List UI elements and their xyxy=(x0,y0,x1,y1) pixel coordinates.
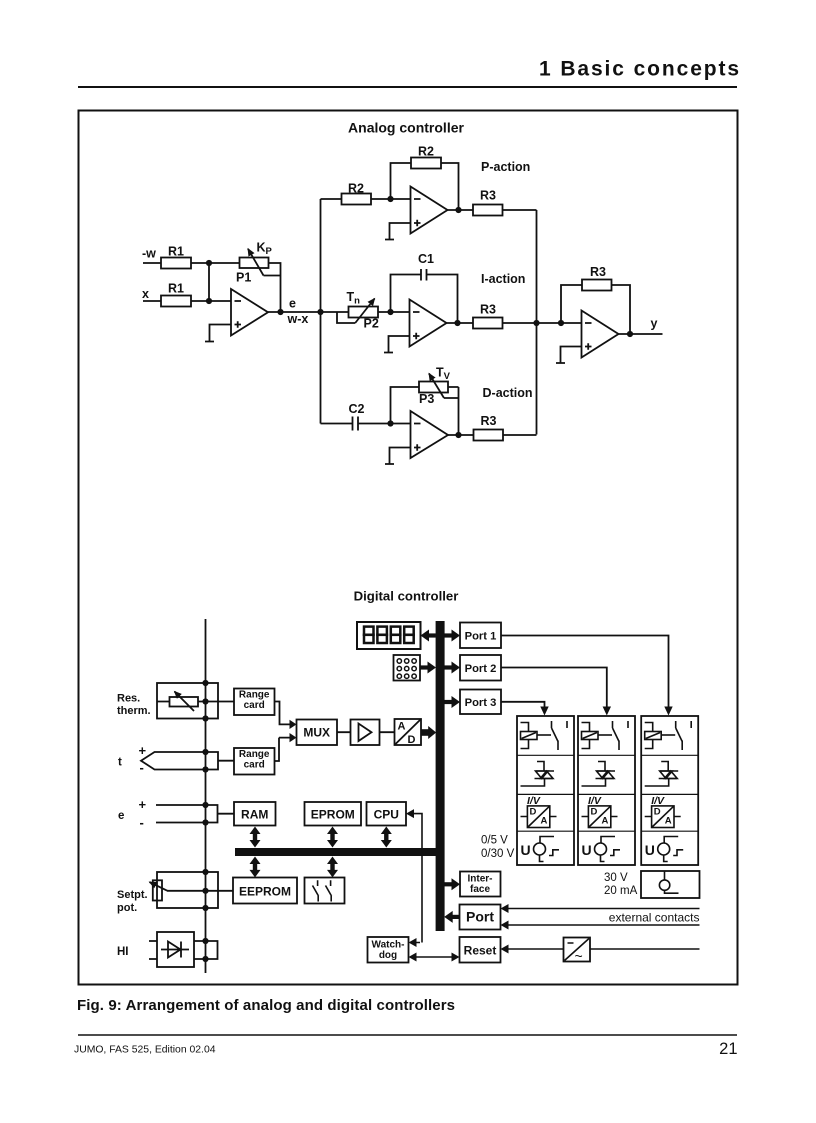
svg-text:R3: R3 xyxy=(480,303,496,317)
svg-text:A: A xyxy=(541,816,548,827)
svg-text:-: - xyxy=(140,760,144,775)
svg-text:HI: HI xyxy=(117,946,129,958)
svg-text:D: D xyxy=(408,734,416,746)
svg-text:pot.: pot. xyxy=(117,902,137,914)
svg-text:D: D xyxy=(530,807,537,818)
svg-text:EEPROM: EEPROM xyxy=(239,885,291,899)
svg-text:Port 3: Port 3 xyxy=(465,697,497,709)
svg-text:Rangecard: Rangecard xyxy=(239,690,270,712)
svg-text:Inter-face: Inter-face xyxy=(468,874,493,896)
svg-text:I/V: I/V xyxy=(527,795,541,807)
svg-text:t: t xyxy=(118,757,122,769)
svg-text:Port 1: Port 1 xyxy=(465,631,497,643)
svg-text:P1: P1 xyxy=(236,271,251,285)
svg-text:1 Basic concepts: 1 Basic concepts xyxy=(539,58,741,81)
svg-text:e: e xyxy=(289,297,296,311)
svg-text:0/30 V: 0/30 V xyxy=(481,848,515,860)
svg-text:RAM: RAM xyxy=(241,808,268,822)
svg-text:e: e xyxy=(118,810,124,822)
svg-text:Fig. 9: Arrangement of analog: Fig. 9: Arrangement of analog and digita… xyxy=(77,997,455,1014)
svg-text:EPROM: EPROM xyxy=(311,808,355,822)
svg-text:KP: KP xyxy=(257,241,273,258)
svg-text:x: x xyxy=(142,287,149,301)
svg-text:JUMO, FAS 525, Edition 02.04: JUMO, FAS 525, Edition 02.04 xyxy=(74,1045,216,1056)
svg-text:C2: C2 xyxy=(349,402,365,416)
svg-text:Port 2: Port 2 xyxy=(465,663,497,675)
svg-text:I-action: I-action xyxy=(481,272,525,286)
svg-text:TV: TV xyxy=(436,366,451,383)
svg-text:-w: -w xyxy=(142,247,156,261)
svg-text:21: 21 xyxy=(719,1040,737,1058)
svg-text:Res.: Res. xyxy=(117,693,140,705)
svg-text:~: ~ xyxy=(575,948,583,964)
svg-text:A: A xyxy=(398,721,406,733)
svg-text:+: + xyxy=(139,797,147,812)
svg-text:Setpt.: Setpt. xyxy=(117,889,148,901)
svg-text:U: U xyxy=(521,842,531,858)
svg-text:Analog controller: Analog controller xyxy=(348,120,464,136)
svg-text:therm.: therm. xyxy=(117,705,151,717)
svg-text:+: + xyxy=(139,743,147,758)
svg-text:R1: R1 xyxy=(168,282,184,296)
svg-text:w-x: w-x xyxy=(287,312,309,326)
svg-text:R3: R3 xyxy=(480,188,496,202)
svg-text:R3: R3 xyxy=(590,265,606,279)
svg-text:30 V: 30 V xyxy=(604,872,628,884)
svg-text:MUX: MUX xyxy=(303,726,330,740)
svg-text:P2: P2 xyxy=(364,317,379,331)
svg-text:external contacts: external contacts xyxy=(609,911,700,925)
svg-text:Rangecard: Rangecard xyxy=(239,749,270,771)
svg-text:Reset: Reset xyxy=(464,944,497,958)
svg-text:20 mA: 20 mA xyxy=(604,885,638,897)
svg-text:R3: R3 xyxy=(481,414,497,428)
svg-text:Digital controller: Digital controller xyxy=(354,589,459,604)
svg-text:R1: R1 xyxy=(168,245,184,259)
svg-text:R2: R2 xyxy=(348,182,364,196)
svg-text:CPU: CPU xyxy=(374,808,399,822)
svg-text:Port: Port xyxy=(466,909,494,925)
svg-text:y: y xyxy=(651,317,658,331)
svg-text:Tn: Tn xyxy=(347,290,361,307)
svg-text:P3: P3 xyxy=(419,392,434,406)
svg-text:C1: C1 xyxy=(418,252,434,266)
svg-text:R2: R2 xyxy=(418,144,434,158)
svg-text:P-action: P-action xyxy=(481,160,530,174)
svg-text:-: - xyxy=(140,815,144,830)
svg-text:D-action: D-action xyxy=(483,386,533,400)
svg-text:0/5 V: 0/5 V xyxy=(481,835,508,847)
